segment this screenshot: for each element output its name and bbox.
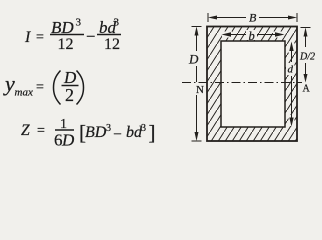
svg-text:3: 3 [114, 17, 120, 29]
svg-text:y: y [3, 71, 15, 96]
svg-text:12: 12 [104, 36, 120, 53]
svg-text:3: 3 [141, 123, 146, 134]
outer rectangle with hatch fill [207, 27, 297, 142]
section outline: hatched walls [207, 27, 297, 142]
dimension B (top) [208, 13, 297, 22]
svg-text:D: D [188, 52, 199, 67]
svg-text:max: max [15, 87, 33, 99]
formula Z = 1/6D [BD^3 - bd^3] [21, 117, 156, 150]
svg-text:B: B [249, 11, 257, 25]
dimension D (left) [192, 27, 202, 142]
inner hole [221, 41, 285, 127]
svg-text:b: b [249, 29, 255, 43]
svg-text:d: d [288, 64, 294, 76]
svg-text:3: 3 [76, 17, 82, 29]
neutral axis N-A (dash-dot) [182, 82, 302, 84]
svg-text:D/2: D/2 [299, 52, 315, 63]
svg-text:=: = [36, 30, 44, 45]
svg-text:–: – [113, 126, 122, 141]
svg-text:D: D [61, 131, 75, 150]
dimension b (inside top wall) [222, 30, 285, 40]
dimension D/2 (right) [301, 28, 311, 83]
svg-text:12: 12 [58, 36, 74, 53]
svg-text:]: ] [149, 121, 156, 145]
svg-text:I: I [24, 29, 31, 46]
svg-text:A: A [303, 84, 311, 95]
formula y_max = (D/2) [3, 68, 84, 105]
svg-text:2: 2 [65, 85, 74, 105]
formula I = BD^3/12 - bd^3/12 [24, 17, 121, 54]
svg-text:3: 3 [106, 123, 111, 134]
svg-text:=: = [37, 124, 45, 139]
svg-text:Z: Z [21, 122, 30, 139]
dimension d (inside right wall) [286, 42, 295, 127]
svg-text:–: – [86, 28, 95, 44]
svg-text:N: N [196, 84, 204, 96]
svg-text:BD: BD [85, 124, 107, 141]
svg-text:=: = [36, 80, 44, 95]
